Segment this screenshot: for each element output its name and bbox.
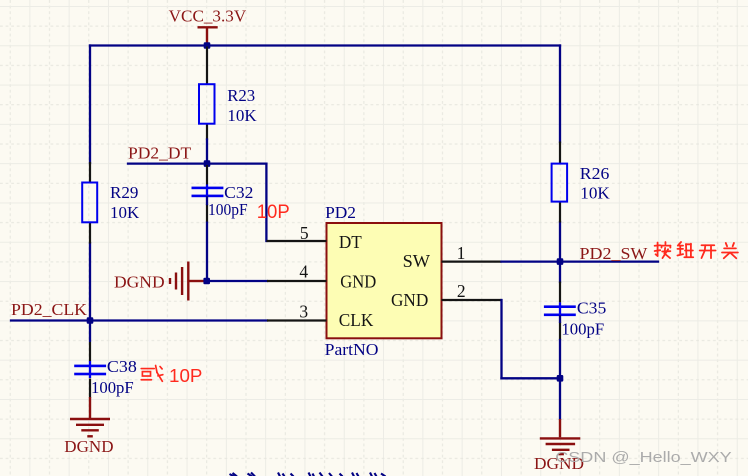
- wire left vertical upper: [89, 46, 91, 164]
- svg-text:CSDN @_Hello_WXY: CSDN @_Hello_WXY: [555, 449, 731, 466]
- junction SW node: [557, 258, 564, 265]
- svg-text:DT: DT: [339, 232, 362, 252]
- svg-text:R29: R29: [110, 183, 138, 202]
- wire left vertical lower: [89, 243, 91, 321]
- net label PD2_CLK: [11, 300, 88, 319]
- svg-text:C35: C35: [577, 298, 606, 317]
- pin 1 SW: [442, 243, 502, 263]
- svg-text:PD2_SW: PD2_SW: [580, 244, 649, 263]
- svg-text:PD2: PD2: [325, 203, 356, 222]
- svg-text:2: 2: [457, 281, 466, 301]
- wire pin2 down: [500, 300, 502, 378]
- capacitor C32 100pF: [192, 165, 254, 219]
- wire right vertical upper: [559, 46, 561, 143]
- svg-text:GND: GND: [391, 290, 428, 310]
- wire SW node down to C35: [559, 262, 561, 282]
- svg-text:10P: 10P: [169, 366, 202, 386]
- junction DT node: [204, 160, 211, 167]
- svg-text:1: 1: [457, 243, 466, 263]
- pin 4 GND: [267, 262, 327, 282]
- svg-text:10K: 10K: [110, 203, 140, 222]
- svg-text:4: 4: [299, 262, 308, 282]
- annotation 或10P: [141, 365, 202, 386]
- svg-text:100pF: 100pF: [561, 320, 604, 339]
- svg-text:PD2_CLK: PD2_CLK: [11, 300, 88, 319]
- wire DT corner down to pin 5: [265, 164, 267, 241]
- earth ground DGND bottom-right: [534, 378, 584, 473]
- wire C35 lead black: [559, 322, 561, 340]
- wire C32 to DGND node: [206, 197, 208, 281]
- wire C32 lead black: [206, 204, 208, 223]
- wire C35 to ground node: [559, 316, 561, 378]
- net label PD2_DT: [128, 143, 192, 162]
- svg-text:10K: 10K: [227, 106, 257, 125]
- resistor R29 10K: [82, 162, 140, 244]
- svg-text:R26: R26: [580, 164, 610, 183]
- wire pin2 to ground node: [502, 377, 561, 379]
- earth ground DGND bottom-left: [64, 379, 113, 456]
- svg-text:10P: 10P: [257, 201, 290, 223]
- svg-text:GND: GND: [340, 271, 376, 291]
- wire right vertical to junction: [559, 222, 561, 262]
- junction CLK node: [87, 317, 94, 324]
- watermark CSDN: [555, 449, 731, 466]
- pin 3 CLK: [267, 302, 327, 322]
- wire CLK horizontal: [11, 319, 267, 321]
- pin 2 GND: [442, 281, 502, 301]
- wire top horizontal bus: [90, 44, 560, 46]
- svg-text:100pF: 100pF: [208, 200, 248, 219]
- resistor R26 10K: [552, 142, 611, 223]
- title text (cut off at bottom): [230, 473, 386, 476]
- svg-text:DGND: DGND: [64, 437, 113, 456]
- wire pin1 to SW net: [502, 260, 659, 262]
- capacitor C38 100pF: [74, 322, 137, 397]
- svg-text:3: 3: [299, 302, 308, 322]
- svg-text:PartNO: PartNO: [325, 340, 379, 359]
- resistor R23 10K: [199, 47, 257, 141]
- svg-text:100pF: 100pF: [91, 378, 134, 397]
- net label PD2_SW: [580, 244, 649, 263]
- svg-text:5: 5: [300, 223, 309, 243]
- svg-text:10K: 10K: [580, 184, 610, 203]
- svg-text:C38: C38: [107, 357, 137, 376]
- svg-text:CLK: CLK: [339, 310, 374, 330]
- svg-text:R23: R23: [227, 86, 255, 105]
- annotation 10P: [257, 201, 290, 223]
- wire DGND node to pin 4: [207, 280, 267, 282]
- svg-text:DGND: DGND: [114, 273, 165, 292]
- capacitor C35 100pF: [544, 282, 606, 339]
- junction DGND node: [203, 278, 210, 285]
- wire R23 to DT node: [206, 140, 208, 164]
- component part PD2 rotary encoder box: [325, 203, 442, 359]
- pin 5 DT: [266, 223, 326, 243]
- annotation 按钮开关: [655, 242, 738, 258]
- svg-text:SW: SW: [403, 251, 431, 271]
- power ground DGND (rotated): [114, 262, 204, 301]
- junction at VCC stem: [204, 42, 211, 49]
- junction ground node: [557, 375, 564, 382]
- power port VCC_3.3V: [169, 7, 247, 46]
- svg-text:VCC_3.3V: VCC_3.3V: [169, 7, 247, 26]
- svg-text:PD2_DT: PD2_DT: [128, 143, 192, 162]
- wire DT horizontal: [128, 162, 266, 164]
